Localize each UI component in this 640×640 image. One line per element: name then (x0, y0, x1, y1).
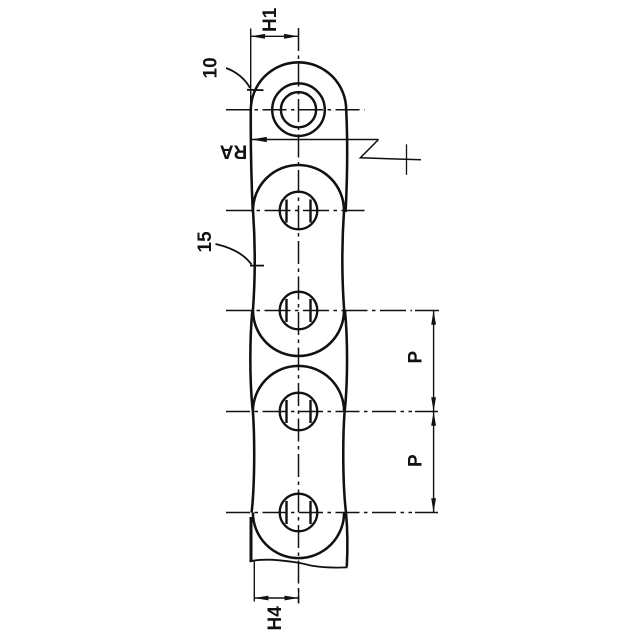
svg-text:P: P (406, 454, 427, 467)
svg-text:10: 10 (201, 57, 222, 78)
svg-text:H4: H4 (265, 606, 286, 631)
svg-text:P: P (406, 351, 427, 364)
svg-text:RA: RA (220, 141, 248, 162)
svg-text:15: 15 (195, 231, 216, 253)
svg-text:H1: H1 (260, 7, 281, 32)
